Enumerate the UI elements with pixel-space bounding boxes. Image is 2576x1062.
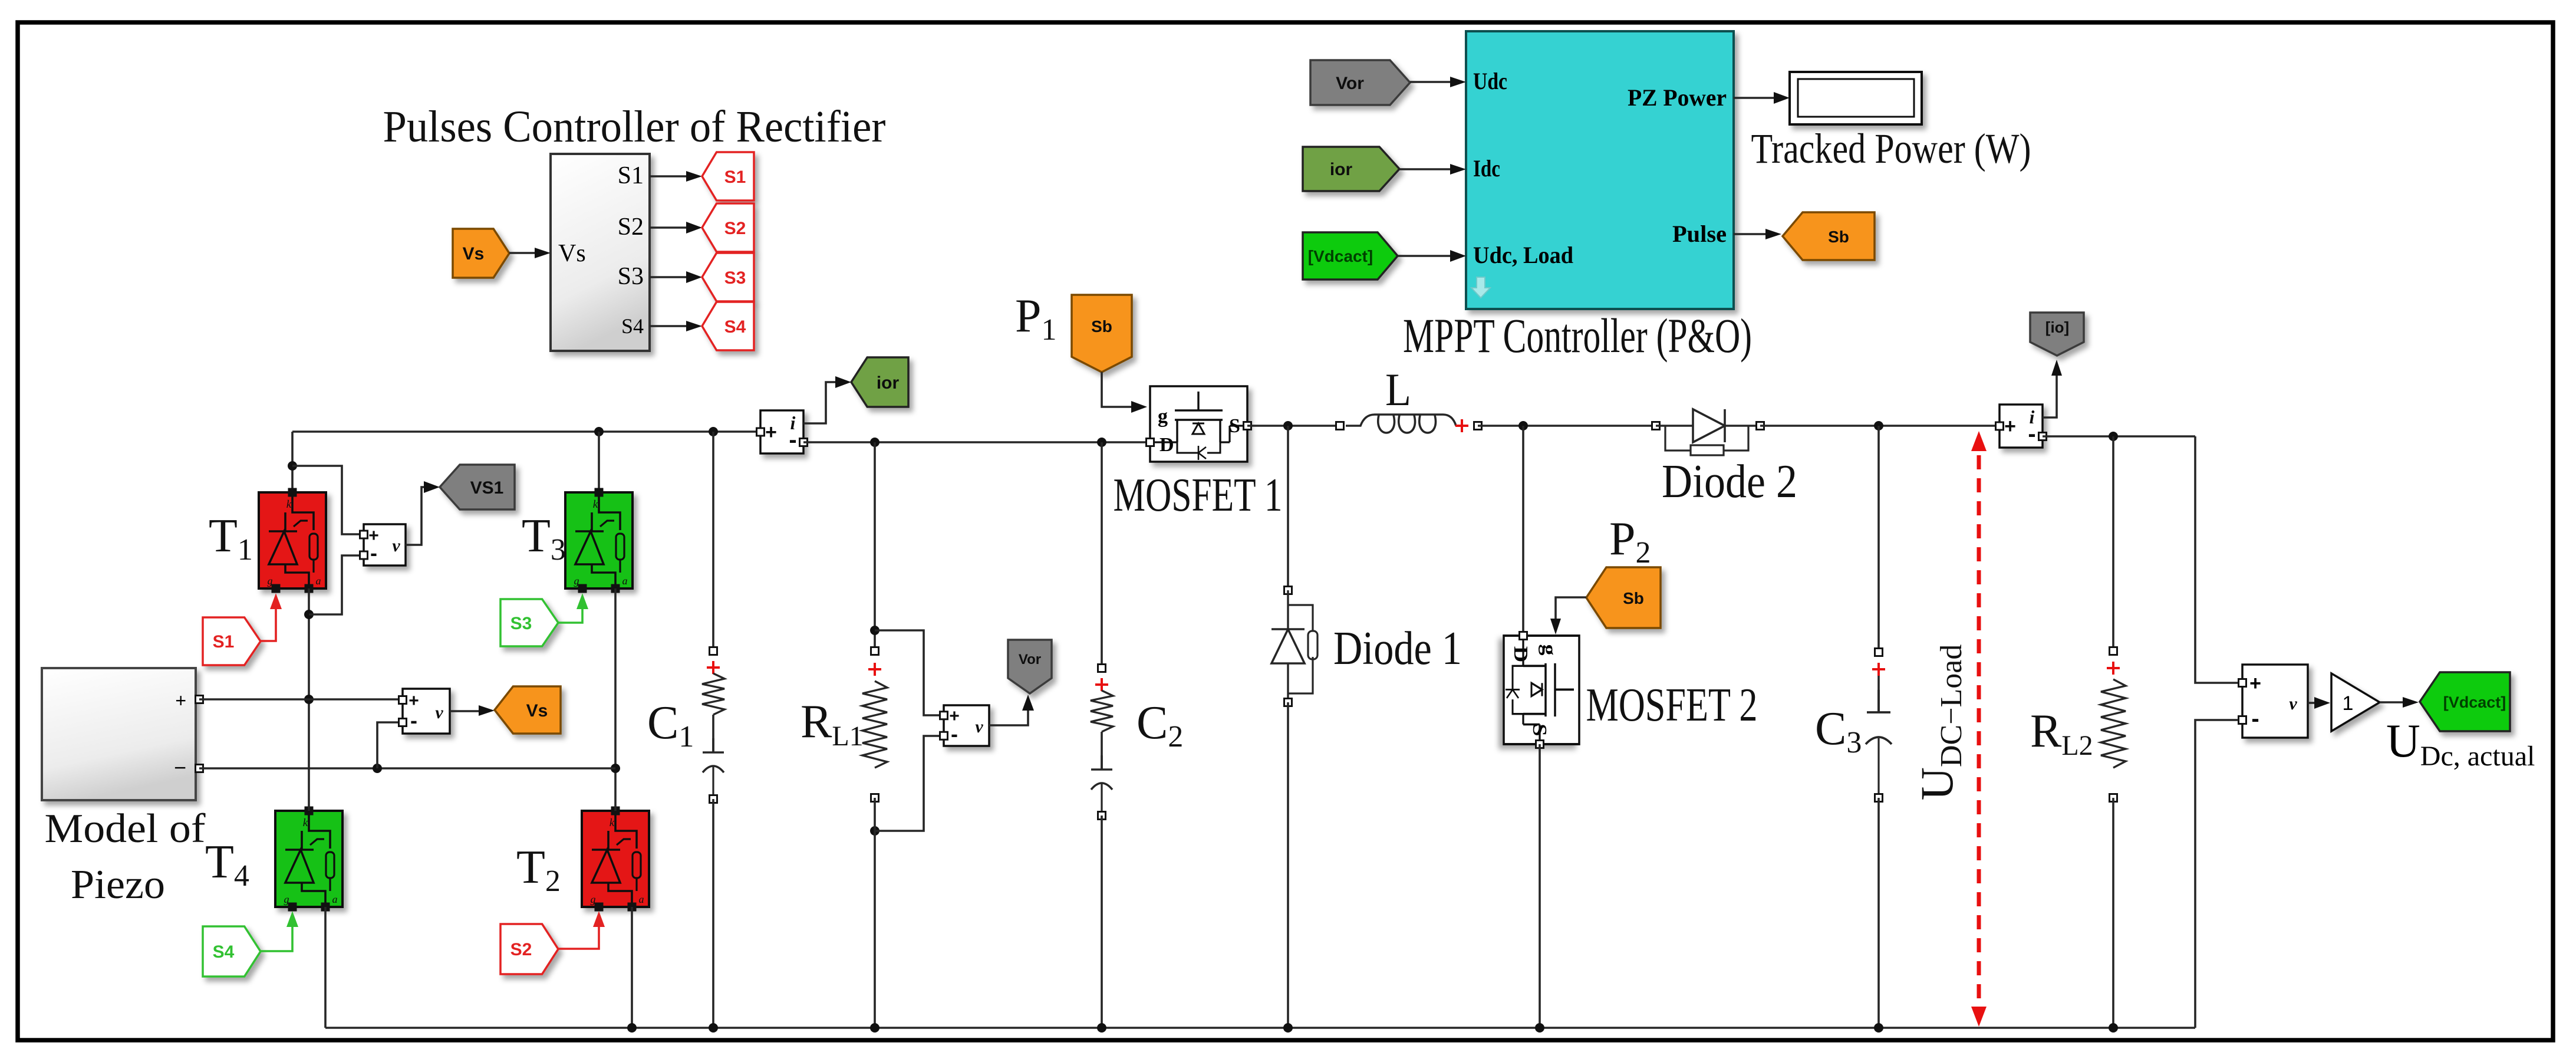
wire io meter - to load node	[2043, 435, 2195, 438]
wire Sb to MOSFET2 gate	[1556, 597, 1586, 629]
wire T1 top connection	[291, 432, 294, 492]
svg-text:Vor: Vor	[1336, 74, 1364, 93]
red polarity + C1	[707, 661, 720, 674]
svg-text:-: -	[370, 541, 377, 565]
wire dc link lower	[803, 441, 1150, 443]
From tag ior (olive)	[1303, 147, 1399, 191]
port C2 top	[1098, 665, 1106, 672]
svg-text:Tracked Power (W): Tracked Power (W)	[1751, 125, 2031, 172]
svg-text:MPPT Controller (P&O): MPPT Controller (P&O)	[1403, 308, 1752, 363]
From tag [Vdcact] left	[1303, 232, 1398, 280]
svg-text:a: a	[622, 575, 628, 587]
junction ground rail / T2	[627, 1023, 637, 1033]
current measurement io meter	[1999, 405, 2043, 448]
resistor of C1 branch	[702, 673, 724, 715]
wire T2 bottom to ground rail	[631, 907, 633, 1028]
wire gain to Vdcact tag	[2380, 701, 2414, 703]
capacitor C3	[1867, 690, 1890, 712]
junction ground rail / C2	[1097, 1023, 1106, 1033]
svg-text:+: +	[765, 421, 777, 443]
svg-text:-: -	[410, 708, 417, 732]
thyristor T1	[259, 492, 326, 588]
wire Vs meter output	[450, 710, 489, 712]
svg-text:k: k	[593, 498, 598, 511]
junction RL1 / Vor + tap	[870, 626, 879, 635]
voltage measurement Vs meter	[403, 689, 450, 734]
wire RL1 upper	[874, 442, 876, 651]
From tag Vor (gray)	[1310, 60, 1410, 105]
wire Vs to controller	[509, 252, 546, 254]
gain block 1	[2331, 673, 2380, 731]
svg-text:Pulse: Pulse	[1672, 221, 1727, 247]
wire L to Diode2	[1478, 425, 1656, 427]
wire ior to Idc	[1399, 168, 1460, 170]
svg-text:VS1: VS1	[470, 478, 504, 498]
wire piezo - across	[199, 767, 615, 770]
wire S2 gate (red)	[558, 915, 599, 949]
port RL2 top	[2110, 647, 2117, 655]
wire Pulse to Sb	[1734, 233, 1777, 235]
svg-text:1: 1	[2343, 692, 2354, 715]
svg-text:MOSFET 2: MOSFET 2	[1586, 679, 1758, 731]
wire Diode2 to io meter	[1760, 425, 1996, 427]
svg-text:S1: S1	[618, 162, 644, 189]
svg-text:PZ Power: PZ Power	[1628, 84, 1727, 111]
svg-text:Pulses Controller of Rectifier: Pulses Controller of Rectifier	[383, 102, 886, 152]
svg-text:Vs: Vs	[558, 240, 586, 267]
wire MOSFET2 drain	[1522, 426, 1524, 636]
svg-text:Udc: Udc	[1473, 68, 1507, 94]
svg-text:-: -	[789, 427, 796, 453]
svg-text:L: L	[1385, 364, 1411, 415]
thyristor T2	[582, 811, 649, 907]
wire S1 gate (red)	[261, 599, 276, 641]
Goto tag S3 (red)	[702, 253, 754, 301]
wire VS1 meter - tap	[309, 555, 364, 614]
port UDc meter +	[2239, 679, 2246, 687]
svg-text:-: -	[2028, 421, 2035, 447]
port Diode1 top	[1284, 587, 1292, 594]
wire Vor meter + tap	[875, 630, 944, 715]
svg-text:S4: S4	[213, 942, 235, 962]
wire C2 internal	[1101, 732, 1103, 770]
svg-text:S4: S4	[621, 314, 644, 338]
junction piezo - / Vs meter tap	[373, 764, 382, 773]
port RL1 bottom	[871, 794, 879, 802]
port MOSFET2 S	[1536, 741, 1544, 748]
svg-text:-: -	[2251, 706, 2259, 732]
junction ground rail / RL2	[2109, 1023, 2118, 1033]
wire C2 upper	[1101, 442, 1103, 668]
port Diode1 bottom	[1284, 699, 1292, 706]
svg-text:k: k	[286, 498, 292, 511]
wire S4 output	[650, 325, 698, 327]
resistor of C2 branch	[1091, 691, 1113, 732]
svg-text:Model of: Model of	[45, 806, 206, 851]
svg-text:Sb: Sb	[1828, 228, 1849, 246]
junction main wire / MOSFET2	[1518, 421, 1528, 430]
wire C2 to ground rail	[1101, 816, 1103, 1028]
wire S4 gate (green)	[261, 915, 292, 951]
junction right leg / piezo -	[611, 764, 620, 773]
diode D2	[1656, 425, 1760, 426]
Goto tag [Vdcact] right	[2420, 672, 2510, 731]
red polarity + RL2	[2107, 662, 2120, 675]
block Model of Piezo	[42, 668, 196, 800]
junction ground rail / C3	[1874, 1023, 1883, 1033]
junction ground rail / D1	[1283, 1023, 1293, 1033]
wire Diode1 to ground rail	[1287, 702, 1289, 1028]
thyristor T3	[565, 492, 633, 588]
svg-text:v: v	[392, 536, 400, 555]
junction top rail / C1	[709, 427, 718, 436]
From tag S2	[500, 924, 558, 974]
svg-text:+: +	[175, 690, 186, 711]
svg-text:v: v	[975, 717, 983, 737]
svg-text:−: −	[174, 755, 186, 780]
red polarity + C2	[1095, 678, 1108, 691]
junction ground rail / C1	[709, 1023, 718, 1033]
capacitor C1	[703, 738, 724, 752]
wire Vor meter output	[989, 699, 1028, 725]
wire v meter to gain	[2308, 702, 2325, 704]
wire C3 internal	[1877, 676, 1880, 712]
svg-text:k: k	[303, 817, 308, 829]
subsystem block MPPT Controller	[1466, 31, 1734, 309]
port C1 bottom	[710, 795, 717, 803]
port Diode2 left	[1652, 422, 1660, 430]
wire RL1 to ground rail	[874, 798, 876, 1028]
svg-text:a: a	[316, 575, 321, 587]
Goto tag S1 (red)	[702, 152, 754, 200]
port MOSFET1 D	[1147, 439, 1154, 446]
wire S3 gate (green)	[558, 599, 582, 623]
port MOSFET2 D	[1520, 632, 1527, 640]
svg-text:v: v	[2289, 694, 2297, 714]
wire T4 bottom to ground rail	[324, 907, 327, 1028]
svg-text:[io]: [io]	[2045, 318, 2069, 336]
svg-text:ior: ior	[1330, 160, 1353, 179]
svg-text:S3: S3	[618, 263, 644, 290]
red arrowhead down	[1971, 1007, 1987, 1027]
wire C3 upper	[1877, 426, 1880, 652]
Goto tag [io] (gray)	[2030, 313, 2084, 356]
wire S1 output	[650, 175, 698, 177]
port UDc meter -	[2239, 716, 2246, 724]
wire Vor to Udc	[1410, 81, 1460, 83]
port piezo +	[196, 696, 203, 703]
wire RL2 to ground rail	[2112, 798, 2114, 1028]
red polarity + L	[1455, 419, 1468, 432]
Goto tag S2 (red)	[702, 203, 754, 252]
port RL2 bottom	[2110, 794, 2117, 802]
svg-text:a: a	[639, 893, 644, 905]
svg-text:S1: S1	[724, 167, 746, 187]
port C2 bottom	[1098, 812, 1106, 820]
svg-text:S2: S2	[618, 213, 644, 241]
red arrowhead up	[1971, 431, 1987, 451]
svg-text:S2: S2	[724, 219, 746, 238]
red polarity + RL1	[868, 663, 881, 676]
Goto tag Vs orange	[495, 686, 561, 734]
junction ground rail / RL1	[870, 1023, 879, 1033]
svg-text:+: +	[2004, 415, 2016, 438]
red dashed arrow UDC-Load	[1977, 455, 1981, 1007]
wire S3 output	[650, 276, 698, 278]
svg-text:a: a	[332, 893, 338, 905]
wire PZ Power to display	[1734, 97, 1784, 99]
wire tap to Vs meter -	[377, 722, 403, 768]
svg-text:k: k	[610, 817, 615, 829]
wire C1 to ground rail	[712, 799, 714, 1028]
svg-text:Vs: Vs	[526, 701, 548, 721]
junction left leg / piezo +	[304, 695, 314, 704]
svg-text:Diode 2: Diode 2	[1662, 456, 1797, 508]
wire Diode1 upper	[1287, 426, 1289, 590]
wire C1 internal	[712, 715, 714, 752]
svg-text:S4: S4	[724, 317, 746, 337]
wire io signal	[2043, 371, 2057, 417]
wire load node to v meter +	[2195, 436, 2238, 683]
junction RL1 / Vor - tap	[870, 826, 879, 836]
From tag S3	[500, 599, 558, 646]
junction load wire / RL2	[2109, 432, 2118, 441]
Goto tag ior (olive)	[851, 357, 908, 407]
wire C3 to ground rail	[1877, 798, 1880, 1028]
wire VS1 meter + tap	[292, 466, 364, 534]
Goto tag Sb (MPPT pulse)	[1783, 212, 1875, 260]
port Diode2 right	[1757, 422, 1764, 430]
From tag S4	[203, 926, 261, 976]
port L right	[1474, 422, 1482, 430]
Goto tag Vor small (gray)	[1008, 640, 1052, 693]
wire v meter - to ground rail	[2195, 720, 2238, 1028]
wire Vdcact to Udc Load	[1398, 255, 1460, 257]
current measurement ior meter	[760, 410, 803, 453]
Goto tag S4 (red)	[702, 302, 754, 350]
wire MOSFET1 S to inductor	[1247, 425, 1340, 427]
junction lower wire / RL1	[870, 438, 879, 447]
svg-text:S3: S3	[724, 268, 746, 288]
wire Vor meter - tap	[875, 736, 944, 831]
wire bottom ground rail	[325, 1027, 2195, 1029]
wire MOSFET2 to ground rail	[1539, 744, 1541, 1028]
port C3 top	[1875, 649, 1883, 656]
diode D1	[1287, 590, 1289, 702]
svg-text:Piezo: Piezo	[71, 862, 165, 908]
resistor RL2	[2101, 679, 2126, 768]
port L left	[1336, 422, 1344, 430]
red polarity + C3	[1872, 663, 1885, 676]
wire left leg T1-T4	[308, 588, 310, 811]
From tag Sb (P2)	[1586, 567, 1661, 628]
wire Sb to MOSFET1 gate	[1102, 372, 1141, 407]
voltage measurement UDc meter	[2242, 665, 2308, 738]
wire VS1 meter output	[406, 487, 434, 545]
junction left leg / VS1 meter	[304, 610, 314, 619]
wire S2 output	[650, 226, 698, 229]
svg-text:[Vdcact]: [Vdcact]	[2443, 693, 2506, 711]
junction main wire / C3	[1874, 421, 1883, 430]
wire C1 branch upper	[712, 432, 714, 651]
wire ior signal	[803, 382, 845, 423]
voltage measurement Vor meter	[944, 705, 989, 746]
port C3 bottom	[1875, 794, 1883, 802]
port C1 top	[710, 647, 717, 655]
MOSFET 1	[1150, 386, 1247, 462]
display block Tracked Power	[1790, 72, 1922, 124]
wire RL2 upper	[2112, 436, 2114, 651]
junction lower wire / C2	[1097, 438, 1106, 447]
port MOSFET1 S	[1244, 422, 1251, 430]
svg-text:S1: S1	[213, 632, 235, 652]
From tag Sb (P1)	[1072, 295, 1132, 372]
voltage measurement VS1 meter	[364, 524, 406, 565]
svg-text:v: v	[435, 703, 443, 722]
junction top rail / T3	[594, 427, 604, 436]
Goto tag VS1 (gray)	[440, 465, 515, 509]
svg-text:+: +	[2249, 672, 2261, 695]
Goto tag Vs (source)	[453, 229, 509, 278]
svg-text:Idc: Idc	[1473, 155, 1500, 182]
wire T3 top connection	[598, 432, 600, 492]
MOSFET 2	[1504, 636, 1579, 744]
svg-text:Sb: Sb	[1623, 589, 1644, 607]
wire right leg T3-T2	[614, 588, 617, 811]
junction ground rail / M2	[1535, 1023, 1544, 1033]
svg-text:S2: S2	[510, 940, 532, 959]
junction T1 top / VS1 tap	[288, 461, 297, 471]
svg-text:Sb: Sb	[1091, 317, 1112, 336]
inductor L	[1346, 415, 1456, 426]
svg-text:Diode 1: Diode 1	[1333, 623, 1462, 675]
svg-text:MOSFET 1: MOSFET 1	[1114, 469, 1283, 521]
svg-text:Vs: Vs	[463, 244, 485, 264]
svg-text:Udc, Load: Udc, Load	[1473, 242, 1573, 268]
resistor RL1	[862, 681, 887, 768]
port RL1 top	[871, 647, 879, 655]
junction main wire / Diode1	[1283, 421, 1293, 430]
thyristor T4	[275, 811, 342, 907]
svg-text:[Vdcact]: [Vdcact]	[1308, 247, 1373, 265]
subsystem block Pulses Controller	[551, 154, 650, 351]
svg-text:S3: S3	[510, 614, 532, 633]
svg-text:-: -	[951, 722, 958, 746]
wire top rail of rectifier	[292, 430, 758, 433]
port piezo -	[196, 765, 203, 772]
capacitor C2	[1091, 755, 1112, 770]
svg-text:ior: ior	[877, 373, 900, 393]
wire piezo + to Vs meter +	[199, 698, 403, 701]
svg-text:Vor: Vor	[1019, 652, 1041, 668]
From tag S1	[203, 617, 261, 665]
